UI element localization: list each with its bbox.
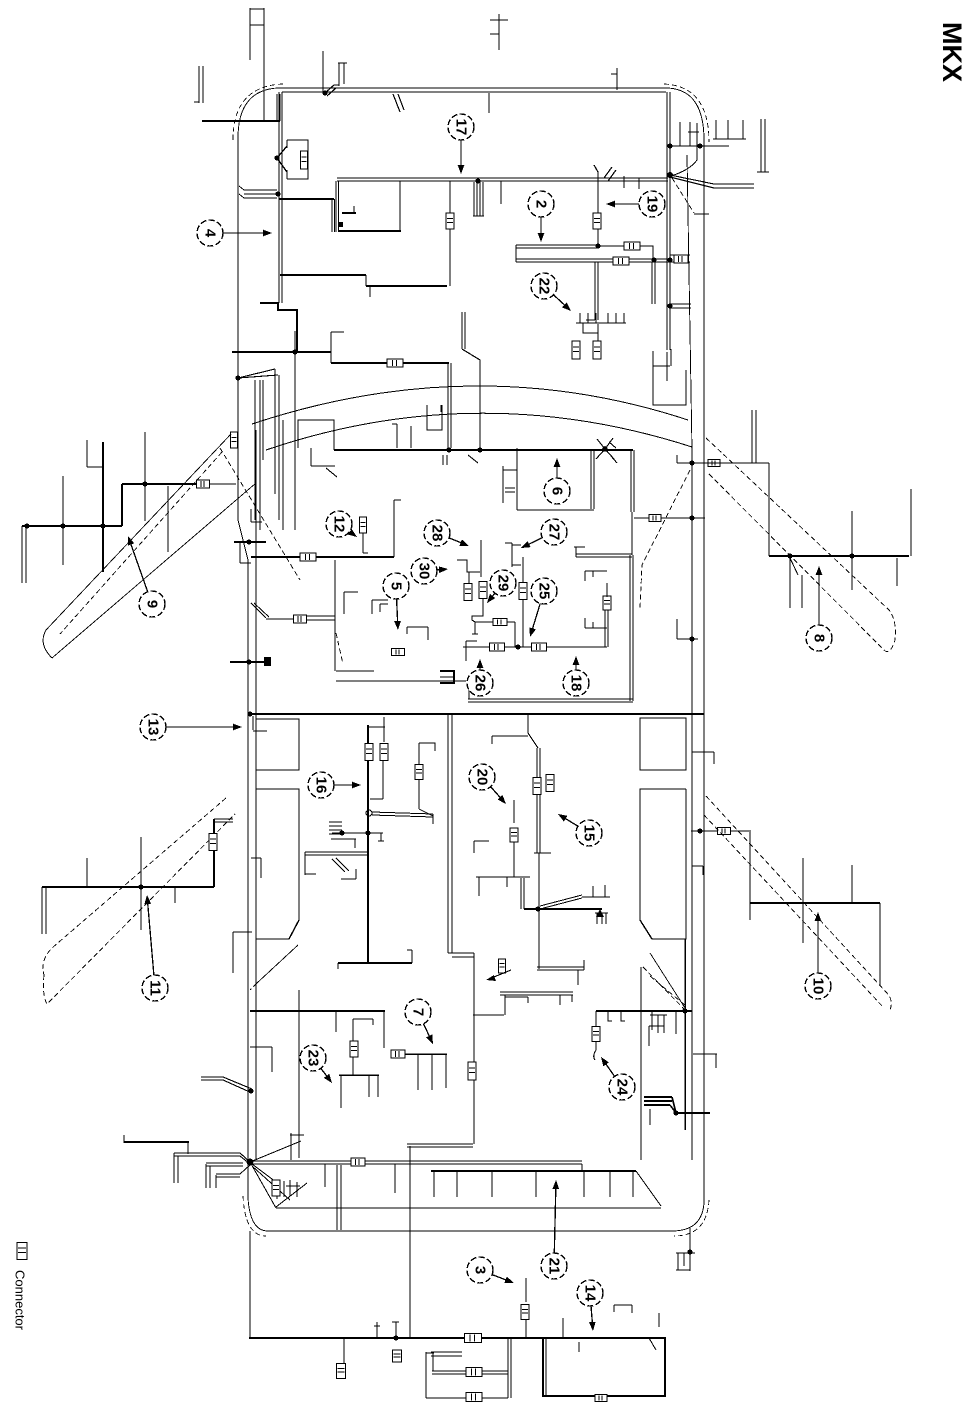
right trunk junction1 [667,143,672,148]
svg-text:30: 30 [416,563,433,580]
bracket 27 [505,543,521,567]
liftgate sides [250,1162,661,1208]
callout 22 [531,273,571,311]
twin drops [473,182,484,216]
right exit y463 [677,455,704,466]
callout 3 [467,1257,514,1283]
right comb small [650,1011,667,1033]
top stub right [611,68,617,90]
lf door edge upper [46,434,231,630]
liftgate lower [276,1207,661,1209]
bracket 18 [585,618,607,628]
callout 19 [606,191,665,217]
svg-text:13: 13 [145,719,162,736]
cowl trunk left [232,351,331,353]
corner drop right [687,1228,692,1271]
callout 26 [467,659,493,696]
wire 23 chain [336,1011,373,1075]
row riser bracket [585,571,607,581]
connector 22b [593,341,601,359]
ip bracket a [503,466,517,503]
wire 3 [521,1278,529,1338]
lr connector [209,834,217,851]
cowl connector [387,359,403,367]
svg-text:5: 5 [388,582,405,590]
door feed junction [234,539,266,544]
left body link [233,932,252,973]
cross link [372,812,433,824]
tunnel lower [473,953,475,1144]
windshield arc lower [266,413,692,450]
callout 12 [326,511,357,537]
callout 29 [487,570,516,603]
left seat rail rear [256,789,299,939]
callout 8 [806,566,832,651]
seat bracket [582,885,610,897]
comb 22 [576,313,626,323]
left box chain3 [466,1393,482,1402]
left floor blob [440,671,454,683]
callout 25 [529,578,557,637]
left outer stub [194,66,280,121]
comb 22 drops [583,323,598,341]
ticks below ip trunk [443,455,617,465]
tail fan pair3 [216,1165,250,1188]
ip chain y619 [251,603,335,623]
svg-text:17: 17 [453,119,470,136]
cowl trunk jog [331,332,344,363]
ip trunk junctions [446,447,482,452]
right exit connector [708,460,720,467]
lf door tip [43,630,52,658]
svg-text:22: 22 [536,278,553,295]
callout 28 [424,520,469,546]
lr door dash lower [43,814,235,1004]
fender link [670,122,729,146]
callout 2 [528,191,554,242]
trunk tick 501 [500,181,502,204]
open junction [366,810,372,816]
rear right ticks [608,1011,676,1046]
lf door edge lower [52,483,256,658]
exit connector 518 [649,515,661,522]
callout 10 [805,912,831,999]
ip trunk [334,449,633,451]
ribbon wires [239,186,277,198]
corner bracket right [676,1253,695,1270]
callout 13 [140,714,242,740]
tail connector [351,1158,365,1166]
tall top stub [490,14,508,50]
callout 20 [469,764,506,804]
engine drop ext [449,246,451,286]
battery connector [301,151,308,169]
svg-text:16: 16 [313,777,330,794]
bracket 5b [407,627,428,640]
ip chain h [475,621,515,623]
left box chain2 [432,1368,508,1377]
inner door line left [255,430,257,1160]
callout 11 [142,895,168,1001]
right bracket 1054 [693,1054,717,1068]
bracket mid [344,592,358,614]
bracket below trunk c [586,262,598,320]
rr door dash lower [704,815,884,1008]
svg-text:10: 10 [810,978,827,995]
rf door corner [768,463,770,556]
row riser right [603,583,611,647]
wire 28 [480,540,482,577]
right quarter trunk [684,939,686,1130]
wire 19 target [594,165,598,246]
comb 23 [339,1075,379,1108]
tunnel connector [468,1062,476,1080]
svg-text:4: 4 [202,229,219,238]
right C-pillar chamfer [641,953,685,1160]
svg-text:MKX: MKX [937,22,967,82]
svg-text:21: 21 [546,1258,563,1275]
bracket 5a [372,600,388,614]
right box details [563,1305,659,1402]
liftgate strut blob [644,1097,676,1125]
tail ticks [325,1164,395,1193]
bracket 20 [476,877,530,896]
callout 6 [544,458,570,504]
right quarter dashes [643,967,686,1011]
rail ticks [434,1171,633,1197]
tail fan bracket [124,1135,189,1154]
cowl stub [393,94,404,112]
trunk top run [282,91,666,93]
corner dashed arcs [233,84,709,1236]
console connectors [365,744,388,761]
engine trunk jog [279,198,334,200]
lf door window [60,452,222,634]
center trunk [367,725,369,963]
engine staircase [260,303,297,352]
wire 24 [592,1011,600,1060]
rf door ticks [752,410,911,608]
lr junction [138,884,143,889]
svg-text:25: 25 [536,583,553,600]
lf trunk end [22,526,26,583]
tail fan pair1 [174,1153,250,1183]
callout 27 [521,519,567,548]
chain connector [493,619,507,626]
lr trunk end [42,887,46,934]
seat x [521,878,602,912]
tail fan pair2 [206,1163,243,1188]
callout 18 [563,656,589,696]
rf door trunk [769,555,909,557]
left body bracket [251,858,261,878]
svg-text:12: 12 [331,516,348,533]
trunk hook [604,167,616,181]
svg-text:7: 7 [410,1008,427,1016]
tail pair line [250,1161,582,1164]
fan dashed drop [672,178,709,214]
callout 7 [405,999,433,1044]
ip fan [235,369,278,381]
trunk junction a [475,178,480,183]
ip lower riser [394,500,401,557]
engine wire drop a [449,181,451,246]
comb 16 [329,822,384,841]
rear floor line left [250,1010,385,1012]
callout 17 [448,114,474,174]
left trunk wire [279,92,282,303]
svg-text:19: 19 [644,196,661,213]
lf junction b [142,481,147,486]
lr ticks [87,837,175,930]
right exit y518 [634,515,705,520]
rr feed connector [718,828,731,835]
engine trunk b [516,245,626,248]
right trunk junction2 [667,303,672,308]
hood stub crossing [323,51,347,96]
wire 27 drop [519,557,527,647]
tail diag up [250,1141,301,1162]
tail fan down [252,1164,290,1200]
engine box right [653,349,686,405]
battery junction [274,155,279,160]
svg-text:20: 20 [474,769,491,786]
callout 30 [411,558,448,584]
console diag [335,560,466,681]
engine connector c [624,242,640,250]
callout 9 [128,536,165,617]
callout 5 [383,573,409,630]
trunk stub [670,304,691,308]
svg-text:28: 28 [429,525,446,542]
right seat rail front [640,718,686,770]
wire 29 [472,599,483,622]
bottom junction [393,1335,398,1340]
legend text [13,1270,28,1331]
legend connector symbol [17,1243,27,1260]
right floor drop [630,555,633,701]
ip verticals [255,352,295,530]
tail drop pair [337,1165,341,1230]
svg-text:27: 27 [546,524,563,541]
svg-text:3: 3 [472,1266,489,1274]
tick below hood edge [488,93,490,113]
body connector [231,432,238,448]
ribbon junction [275,191,280,196]
svg-text:8: 8 [811,634,828,642]
ip trunk left bend [298,420,334,450]
stub above hood [250,8,264,120]
left seat rail front [256,719,299,770]
far corner stub [757,119,769,172]
tail bracket up [290,1133,304,1160]
door feed bracket [240,542,251,563]
lf upper trunk [122,484,197,526]
rf door feed [704,462,769,464]
tail step [581,1164,583,1171]
svg-text:15: 15 [581,825,598,842]
rear floor line right [596,1008,692,1013]
liftgate strut line [673,1110,710,1115]
tail rail [431,1170,636,1172]
splice fan [624,172,754,189]
trunk c junctions [651,257,672,262]
front door dash upper [706,438,895,640]
connector 22a [572,341,580,359]
tail tick cluster [276,1180,307,1207]
tail connector v [272,1180,280,1196]
floor bottom line [468,688,633,702]
engine connector a [446,213,454,229]
lf trunk [22,525,122,527]
bpillar dash right [640,470,690,608]
door feed junction b [230,657,271,666]
windshield arc upper [252,386,688,424]
splice x [596,438,616,459]
svg-text:14: 14 [582,1285,599,1302]
left drop [249,1231,251,1337]
inner door line right [687,155,692,1160]
tunnel pair [448,714,452,953]
rear floor wire [537,960,584,985]
left box [426,1339,511,1398]
bpillar dash mid [336,633,343,664]
svg-text:2: 2 [533,200,550,208]
console tail [538,853,540,969]
right exit y639 [677,619,698,642]
seat arrow [486,970,511,981]
row connector b [532,643,547,651]
svg-text:18: 18 [568,675,585,692]
engine rect [332,181,401,232]
inner line left low [298,990,300,1158]
cowl tick [292,331,297,355]
bottom ticks up [374,1322,399,1338]
wire 20 [510,800,518,877]
rr door trunk [750,902,880,904]
fuel line [671,123,699,176]
callout 24 [601,1057,635,1100]
connector 5 [392,649,405,656]
row connector a [490,643,505,651]
engine connector d [613,257,629,265]
bottom conn a [337,1364,346,1379]
floor mid junction [247,711,252,716]
console connector a [533,778,541,795]
y854 link [305,852,368,855]
console drop pair [492,714,538,748]
svg-text:6: 6 [549,487,566,495]
ip lower connector [300,553,316,561]
comb 7 [405,1054,447,1090]
floor mid line [248,713,704,715]
ip bracket c [427,405,442,430]
inline connector [465,1334,482,1343]
cross y833 [332,830,383,835]
small conn [499,959,506,973]
tunnel top link [473,997,528,1015]
wire 7 drop [383,1011,385,1048]
lf junctions [24,523,105,528]
trunk c stub right [670,255,690,263]
MKX title [937,22,967,82]
tail junction [247,1159,254,1166]
rr door riser [731,831,751,920]
wire 12 [360,517,369,553]
lr riser [214,819,233,887]
y879 bracket [341,869,356,879]
left door sill wires [201,1077,254,1094]
callout 16 [308,772,361,798]
bottom conn b [393,1350,402,1362]
engine lower run [280,275,447,297]
right trunk wire [667,92,670,350]
car body outline [238,88,704,1231]
rf door junctions [787,553,854,558]
right exit y752 [692,752,714,764]
rr door dash upper [706,796,891,1010]
center trunk top [369,717,385,742]
branch y555 [574,547,632,557]
engine trunk main [337,178,668,181]
chain bracket [472,622,478,634]
cowl trunk mid [331,362,449,364]
ip bracket d [251,509,262,522]
front door dash lower [709,474,895,652]
lf connector [197,480,210,488]
junction 19 [595,243,600,248]
engine connector b [593,213,601,229]
svg-text:24: 24 [614,1079,631,1096]
trunk bc link [515,245,517,262]
engine trunk c [516,259,670,262]
bracket 30 [457,560,480,583]
console pair [534,748,551,853]
y1144 link [407,1144,473,1147]
svg-text:23: 23 [305,1050,322,1067]
callout 23 [300,1045,332,1083]
connector 29b [479,582,487,599]
cowl drop right [448,363,451,448]
battery box [277,140,308,179]
lf ticks [63,432,168,572]
tunnel step [448,953,474,957]
svg-text:29: 29 [495,575,512,592]
right box [543,1338,665,1396]
lr door dash upper [43,798,226,975]
connector 7 [391,1050,405,1058]
svg-text:26: 26 [472,675,489,692]
ip step detail [311,448,337,477]
hood stub junction [322,90,327,95]
callout 14 [577,1280,603,1331]
y854 bracket [305,839,356,875]
chain drop [514,622,516,647]
right bracket 864 [692,866,703,875]
callout 21 [541,1180,567,1279]
right L column [415,743,435,816]
left C-pillar chamfer [250,945,298,990]
y854 slashes [332,858,349,872]
lr trunk [42,886,214,888]
row bracket left [466,641,477,661]
center drop [409,1146,411,1338]
apillar drop [462,312,480,448]
right seat rail rear [640,789,686,939]
bottom tick down [343,1338,345,1364]
seat comb [595,909,608,924]
bracket 20b [474,841,489,853]
